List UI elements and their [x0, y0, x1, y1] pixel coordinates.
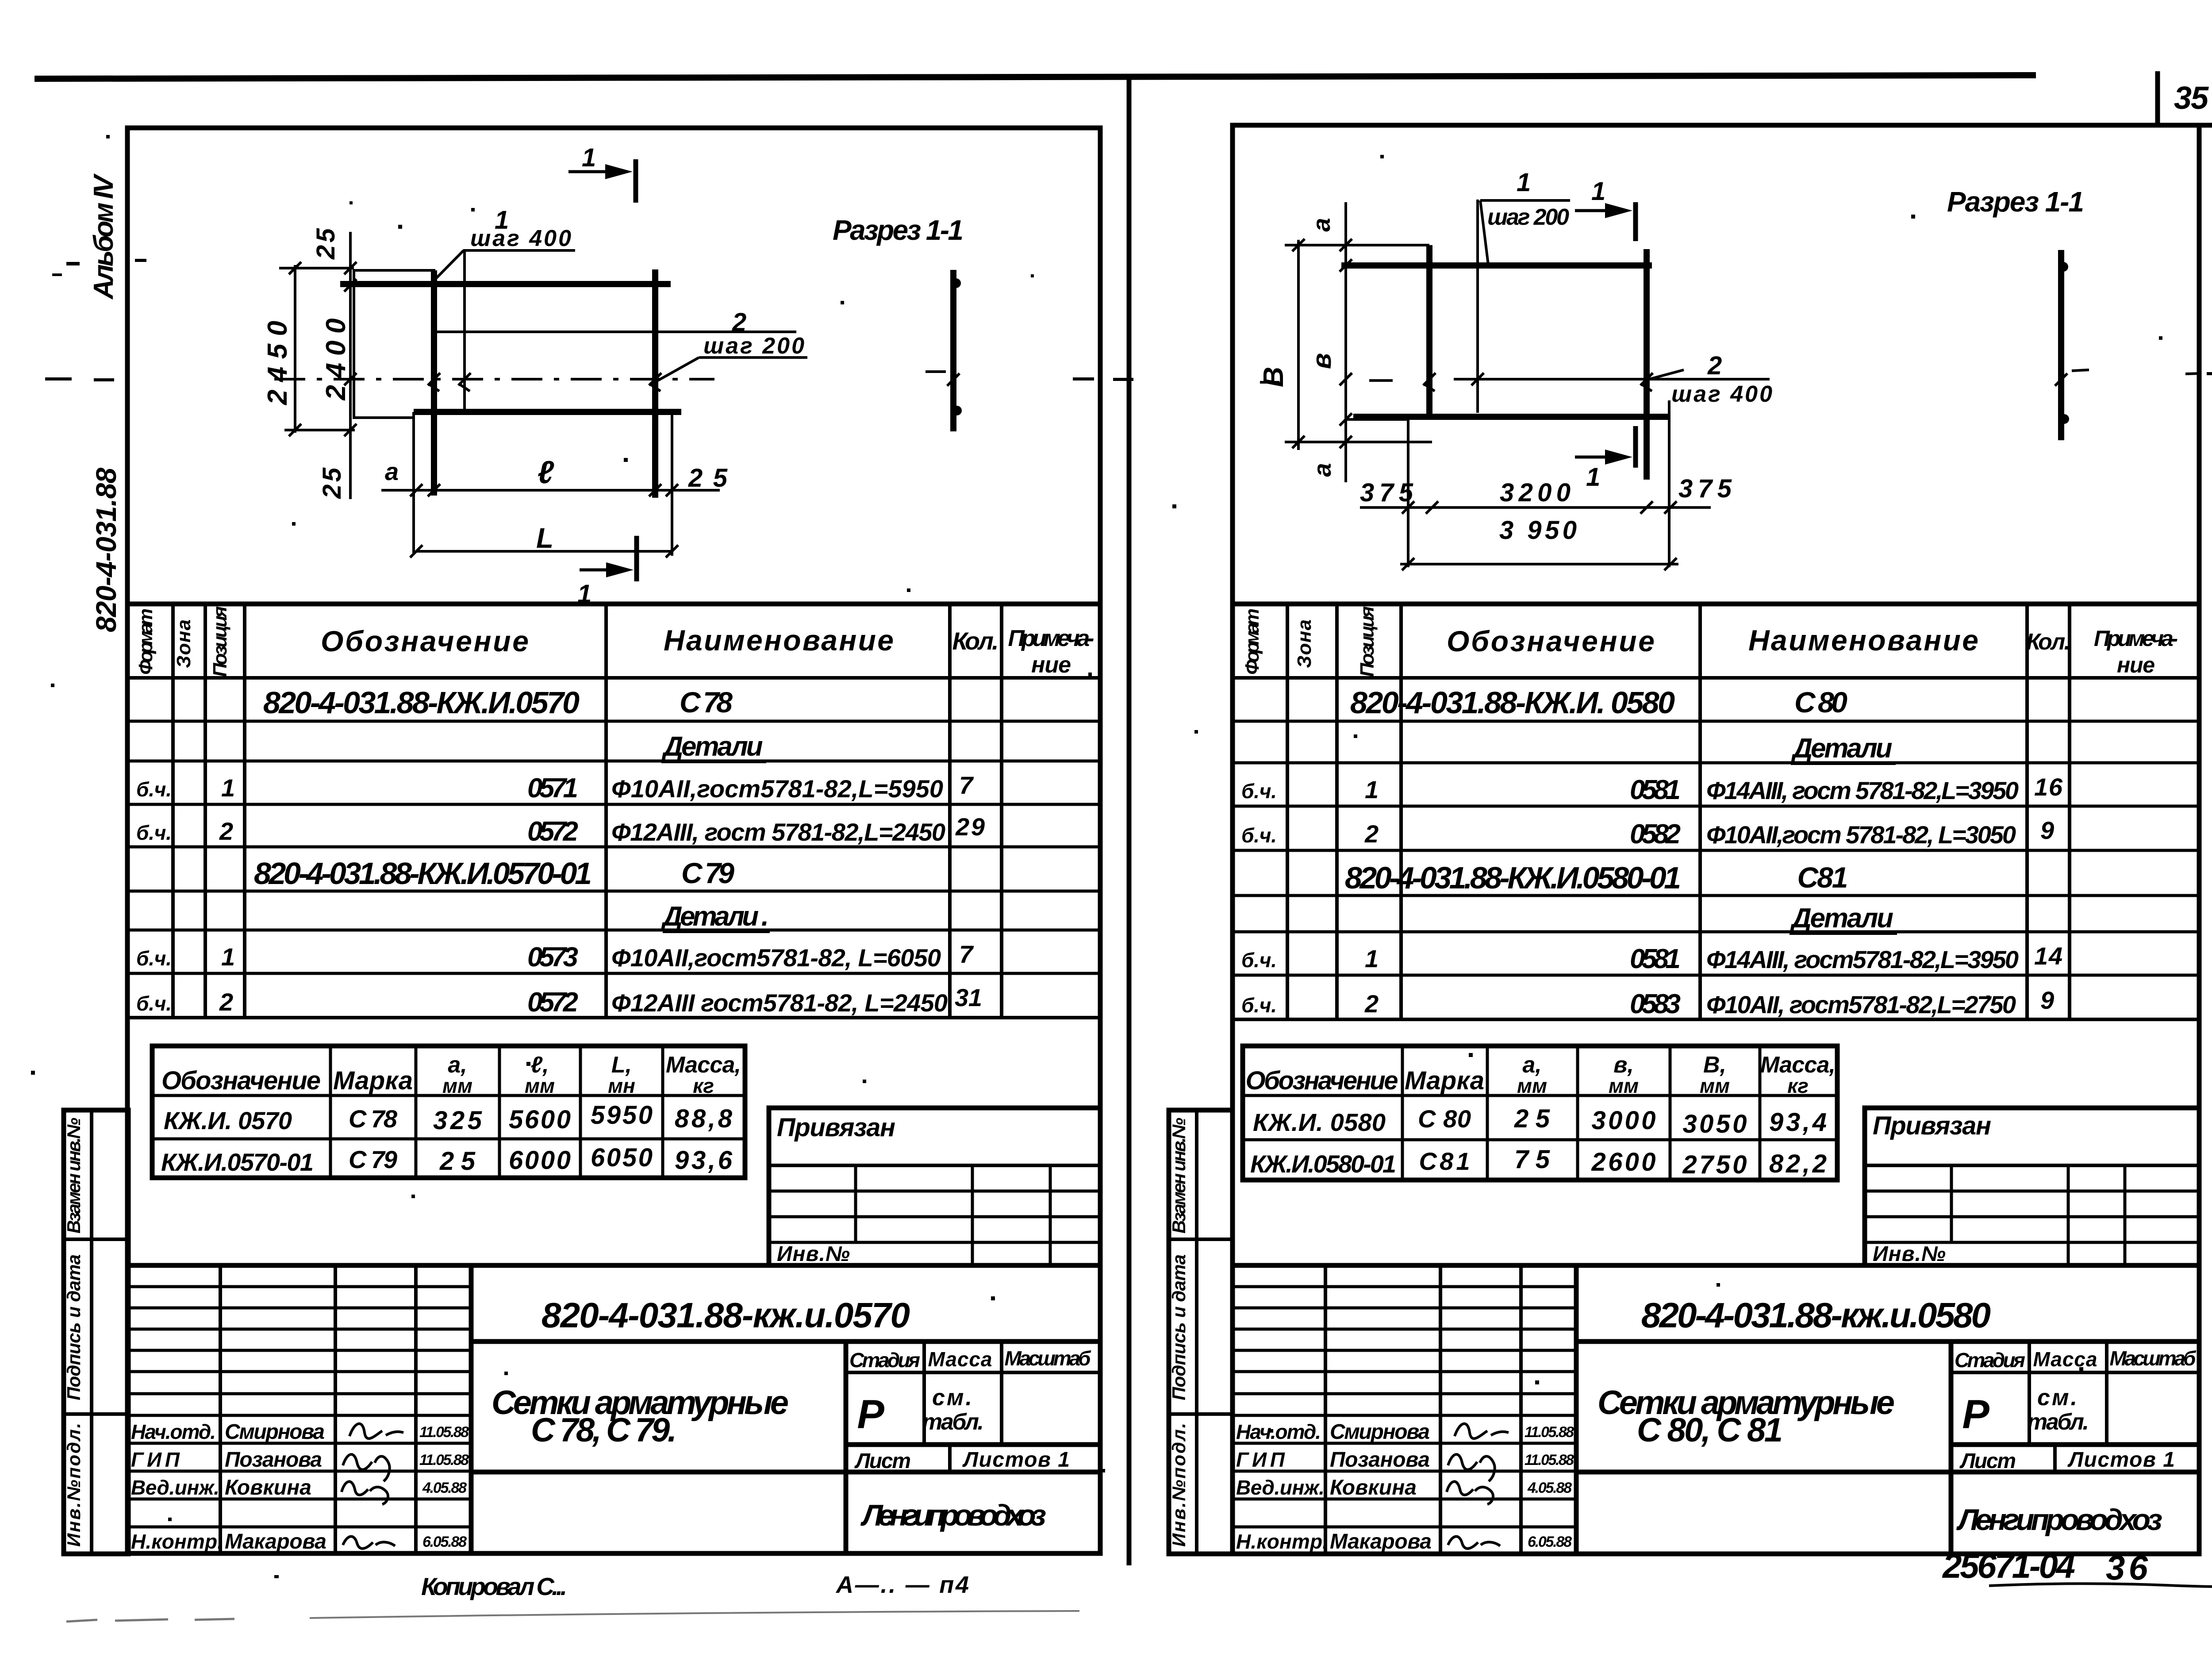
svg-text:б.ч.: б.ч. — [1241, 994, 1277, 1017]
right privyazan column lines — [1950, 1165, 1953, 1242]
left spec table column lines — [171, 604, 175, 1018]
svg-text:0581: 0581 — [1630, 944, 1681, 974]
svg-text:Лист: Лист — [1959, 1449, 2016, 1473]
svg-text:4.05.88: 4.05.88 — [1527, 1480, 1572, 1496]
left narrow column divider — [90, 1110, 93, 1554]
svg-text:Лист: Лист — [854, 1449, 911, 1473]
right section bar tick — [2055, 373, 2067, 386]
right narrow column box — [1169, 1110, 1233, 1554]
svg-text:11.05.88: 11.05.88 — [1525, 1452, 1574, 1468]
svg-text:Макарова: Макарова — [225, 1530, 326, 1553]
svg-text:2: 2 — [1364, 820, 1379, 848]
svg-text:Макарова: Макарова — [1330, 1530, 1432, 1553]
svg-text:шаг 400: шаг 400 — [1671, 381, 1772, 407]
right param table row line — [1243, 1138, 1837, 1142]
svg-text:Ковкина: Ковкина — [1330, 1476, 1417, 1499]
svg-text:Наименование: Наименование — [1748, 624, 1978, 657]
sheet number cell divider — [2155, 71, 2160, 125]
svg-text:ГИП: ГИП — [1236, 1448, 1285, 1471]
svg-text:Ф10АII,гост 5781-82, L=3050: Ф10АII,гост 5781-82, L=3050 — [1706, 821, 2016, 849]
svg-text:35: 35 — [2174, 81, 2209, 116]
bottom faint copy line left — [66, 1619, 234, 1622]
svg-text:2: 2 — [219, 817, 233, 845]
right dim line B outer — [1297, 240, 1300, 450]
svg-text:1: 1 — [1365, 945, 1379, 972]
left mesh thin rect — [354, 270, 435, 418]
left sheet frame — [127, 128, 1100, 1553]
svg-text:0572: 0572 — [527, 987, 578, 1018]
svg-text:Наименование: Наименование — [664, 624, 894, 657]
svg-text:Ленгипроводхоз: Ленгипроводхоз — [860, 1499, 1046, 1532]
svg-text:1: 1 — [1591, 177, 1605, 206]
svg-text:Масштаб: Масштаб — [1005, 1347, 1092, 1370]
svg-text:9: 9 — [2040, 816, 2054, 844]
left mesh left bar — [431, 270, 437, 496]
right mesh bottom bar — [1353, 414, 1671, 420]
right leader 2 diagonal — [1647, 370, 1684, 380]
svg-text:88,8: 88,8 — [675, 1104, 733, 1133]
svg-text:a: a — [1308, 463, 1336, 477]
left narrow column row lines — [64, 1238, 128, 1241]
bottom right underline — [1989, 1583, 2212, 1587]
left spec row2 underline — [661, 761, 766, 763]
svg-text:С 78, С 79.: С 78, С 79. — [531, 1411, 677, 1449]
svg-text:Ф10АII,гост5781-82, L=6050: Ф10АII,гост5781-82, L=6050 — [611, 944, 941, 972]
left mesh bottom bar — [414, 409, 681, 415]
svg-text:С 78: С 78 — [680, 686, 733, 719]
left dim line 2450 — [294, 265, 296, 433]
left spec table header bottom — [127, 676, 1100, 680]
svg-text:С81: С81 — [1419, 1147, 1470, 1175]
right lower rect right edge — [1668, 400, 1671, 567]
right privyazan row lines — [1865, 1190, 2199, 1193]
left dim line 2400 — [349, 232, 352, 499]
right section bar — [2058, 250, 2064, 440]
svg-text:93,6: 93,6 — [675, 1146, 733, 1175]
middle divider line between sheets — [1127, 78, 1132, 1565]
svg-text:31: 31 — [955, 984, 982, 1011]
left section arrow top — [634, 159, 638, 203]
svg-text:0572: 0572 — [527, 816, 578, 847]
svg-text:11.05.88: 11.05.88 — [1525, 1424, 1574, 1441]
svg-text:кг: кг — [1787, 1074, 1809, 1097]
svg-text:Ковкина: Ковкина — [225, 1476, 311, 1499]
svg-text:Обозначение: Обозначение — [321, 625, 529, 657]
right spec table header bottom — [1233, 676, 2199, 680]
svg-text:Ленгипроводхоз: Ленгипроводхоз — [1956, 1503, 2162, 1537]
svg-text:Обозначение: Обозначение — [1447, 625, 1655, 657]
right section arrow top — [1633, 202, 1638, 241]
svg-text:a: a — [385, 457, 399, 485]
svg-text:1: 1 — [1586, 463, 1600, 492]
left narrow column box — [64, 1110, 128, 1554]
right title block signature rows — [1233, 1442, 1576, 1445]
svg-text:мм: мм — [1609, 1074, 1639, 1097]
svg-text:7: 7 — [959, 771, 974, 799]
svg-text:0581: 0581 — [1630, 775, 1681, 805]
left signature squiggle4 — [343, 1537, 395, 1549]
svg-text:шаг 200: шаг 200 — [703, 333, 804, 359]
svg-text:1: 1 — [577, 580, 591, 608]
svg-text:L: L — [536, 522, 553, 554]
svg-text:мн: мн — [608, 1074, 635, 1097]
svg-text:Копировал С...: Копировал С... — [421, 1572, 567, 1600]
svg-text:Ф12АIII, гост 5781-82,L=2450: Ф12АIII, гост 5781-82,L=2450 — [611, 818, 945, 846]
left axis dashed line — [274, 378, 714, 381]
left section bar axis dashes — [926, 370, 946, 373]
svg-text:Формат: Формат — [1241, 608, 1263, 675]
left e dim line — [381, 489, 720, 492]
left axis cross marks — [428, 373, 661, 391]
right spec row6 underline — [1790, 932, 1897, 935]
svg-text:2: 2 — [219, 988, 233, 1016]
left dim extension top — [279, 267, 354, 269]
svg-text:Нач.отд.: Нач.отд. — [131, 1420, 216, 1443]
left signature squiggle1 — [349, 1424, 403, 1439]
svg-text:11.05.88: 11.05.88 — [419, 1452, 469, 1468]
left param table row line — [152, 1138, 745, 1141]
svg-text:820-4-031.88-кж.и.0570: 820-4-031.88-кж.и.0570 — [541, 1295, 910, 1335]
right lower rect left edge — [1407, 417, 1409, 567]
right spec table row lines — [1233, 720, 2199, 723]
right param table header line — [1243, 1094, 1837, 1097]
right param table box — [1243, 1046, 1837, 1180]
left mesh right bar — [652, 269, 658, 498]
right title block thin rows — [1233, 1285, 1576, 1288]
svg-text:Разрез 1-1: Разрез 1-1 — [1947, 186, 2084, 218]
svg-text:ℓ: ℓ — [538, 455, 554, 490]
svg-text:С81: С81 — [1797, 861, 1848, 894]
svg-text:Стадия: Стадия — [849, 1349, 920, 1372]
left privyazan row lines — [769, 1190, 1100, 1193]
svg-text:3 950: 3 950 — [1499, 516, 1577, 545]
left section bar — [950, 270, 956, 431]
svg-text:820-4-031.88-КЖ.И.0570-01: 820-4-031.88-КЖ.И.0570-01 — [254, 856, 592, 891]
svg-text:табл.: табл. — [922, 1409, 984, 1435]
left section bar tick — [947, 373, 960, 386]
svg-text:Инв.№: Инв.№ — [777, 1242, 850, 1266]
svg-text:Детали: Детали — [1791, 733, 1893, 764]
right mesh wire 1 vertical — [1476, 200, 1479, 413]
left section bar dots — [951, 278, 961, 288]
svg-text:Ф14АIII, гост5781-82,L=3950: Ф14АIII, гост5781-82,L=3950 — [1706, 946, 2019, 973]
svg-text:6.05.88: 6.05.88 — [1528, 1534, 1572, 1550]
svg-text:14: 14 — [2034, 942, 2062, 970]
page top border line — [35, 75, 2036, 79]
svg-text:16: 16 — [2034, 773, 2063, 801]
svg-text:0573: 0573 — [527, 942, 578, 972]
right narrow column row lines — [1169, 1238, 1233, 1241]
svg-text:А—.. — п4: А—.. — п4 — [835, 1572, 969, 1598]
svg-text:Разрез 1-1: Разрез 1-1 — [833, 214, 964, 246]
left privyazan header bottom — [769, 1164, 1100, 1167]
svg-text:0582: 0582 — [1630, 819, 1681, 849]
svg-text:Взамен инв.№: Взамен инв.№ — [1168, 1118, 1189, 1234]
svg-text:Привязан: Привязан — [777, 1113, 895, 1142]
svg-text:КЖ.И.0570-01: КЖ.И.0570-01 — [161, 1148, 314, 1176]
svg-text:375: 375 — [1360, 478, 1413, 507]
svg-text:Н.контр.: Н.контр. — [1236, 1530, 1328, 1553]
right narrow column divider — [1195, 1110, 1198, 1554]
svg-text:мм: мм — [442, 1074, 472, 1097]
left lower rect left edge — [412, 412, 415, 553]
right mesh top bar — [1341, 262, 1652, 269]
left privyazan box — [769, 1108, 1100, 1265]
svg-text:б.ч.: б.ч. — [1241, 824, 1277, 847]
left privyazan column lines — [854, 1165, 857, 1242]
left title block signature rows — [127, 1442, 471, 1445]
svg-text:820-4-031.88-КЖ.И.0580-01: 820-4-031.88-КЖ.И.0580-01 — [1345, 861, 1681, 895]
left spec row6 underline — [663, 930, 770, 933]
svg-text:6.05.88: 6.05.88 — [422, 1534, 467, 1550]
svg-text:Формат: Формат — [135, 608, 157, 675]
svg-text:2: 2 — [1364, 990, 1379, 1018]
svg-text:Марка: Марка — [1405, 1066, 1484, 1095]
left section arrow bottom — [634, 536, 639, 581]
right spec row2 underline — [1791, 762, 1896, 765]
right dim line в inner — [1344, 202, 1347, 482]
right section arrow bottom — [1633, 426, 1638, 468]
svg-text:1: 1 — [221, 774, 235, 802]
svg-text:мм: мм — [1517, 1074, 1547, 1097]
svg-text:см.: см. — [932, 1385, 972, 1411]
svg-text:Подпись и дата: Подпись и дата — [63, 1254, 84, 1400]
svg-text:4.05.88: 4.05.88 — [422, 1480, 467, 1496]
svg-text:Детали .: Детали . — [661, 901, 769, 932]
svg-text:Вед.инж.: Вед.инж. — [1236, 1476, 1325, 1499]
right signature squiggle1 — [1455, 1424, 1509, 1439]
left mesh wire 1 vertical — [463, 249, 466, 412]
svg-text:б.ч.: б.ч. — [1241, 949, 1277, 972]
svg-text:б.ч.: б.ч. — [136, 947, 172, 970]
svg-text:мм: мм — [1700, 1074, 1730, 1097]
svg-text:Ф12АIII гост5781-82, L=2450: Ф12АIII гост5781-82, L=2450 — [611, 989, 948, 1017]
right title name box lines — [1576, 1339, 2199, 1344]
svg-text:Позанова: Позанова — [225, 1448, 322, 1472]
svg-text:В: В — [1257, 367, 1289, 387]
svg-text:11.05.88: 11.05.88 — [419, 1424, 469, 1441]
svg-text:С 79: С 79 — [681, 857, 734, 889]
right signature squiggle3 — [1447, 1482, 1493, 1504]
right spec table column lines — [1286, 604, 1289, 1019]
right param table column lines — [1401, 1046, 1404, 1180]
svg-text:КЖ.И. 0580: КЖ.И. 0580 — [1253, 1108, 1386, 1136]
svg-text:Кол.: Кол. — [2026, 629, 2070, 655]
right axis line solid part — [1454, 378, 1770, 381]
svg-text:Ф14АIII, гост 5781-82,L=3950: Ф14АIII, гост 5781-82,L=3950 — [1706, 776, 2019, 804]
right axis cross marks — [1340, 373, 1653, 391]
right mesh left bar — [1426, 245, 1432, 419]
svg-text:Р: Р — [857, 1392, 884, 1437]
svg-text:б.ч.: б.ч. — [136, 992, 172, 1015]
svg-text:в: в — [1307, 353, 1336, 369]
svg-text:Масса: Масса — [928, 1348, 992, 1371]
svg-text:Кол.: Кол. — [952, 627, 999, 655]
svg-text:7: 7 — [959, 940, 974, 968]
left mesh wire 2 horizontal — [437, 331, 796, 333]
right section bar dots — [2058, 262, 2068, 272]
svg-text:КЖ.И. 0570: КЖ.И. 0570 — [164, 1107, 292, 1134]
svg-text:Ф10АII, гост5781-82,L=2750: Ф10АII, гост5781-82,L=2750 — [1706, 991, 2016, 1019]
svg-text:С 80, С 81: С 80, С 81 — [1637, 1411, 1783, 1449]
svg-text:1: 1 — [1517, 168, 1531, 197]
svg-text:см.: см. — [2037, 1385, 2077, 1411]
right mesh right bar — [1644, 249, 1650, 480]
svg-text:1: 1 — [221, 943, 235, 971]
svg-text:Смирнова: Смирнова — [1330, 1420, 1430, 1444]
svg-text:Зона: Зона — [1294, 619, 1315, 668]
right sheet top frame extension to page edge — [2199, 123, 2212, 128]
svg-text:табл.: табл. — [2027, 1409, 2089, 1435]
svg-text:Стадия: Стадия — [1955, 1349, 2025, 1372]
svg-text:С 78: С 78 — [349, 1105, 398, 1133]
right dim extension bottom — [1285, 441, 1432, 443]
svg-text:93,4: 93,4 — [1769, 1108, 1827, 1137]
right sheet frame — [1233, 125, 2199, 1554]
svg-text:375: 375 — [1678, 474, 1732, 503]
right 375-3200-375 dim line — [1360, 506, 1711, 509]
svg-text:Вед.инж.: Вед.инж. — [131, 1476, 219, 1499]
svg-text:82,2: 82,2 — [1769, 1149, 1827, 1178]
left mesh top bar — [340, 281, 671, 287]
svg-text:Позанова: Позанова — [1330, 1448, 1430, 1472]
svg-text:ние: ние — [2117, 653, 2155, 677]
right title block signature column lines — [1324, 1265, 1327, 1554]
svg-text:Подпись и дата: Подпись и дата — [1168, 1254, 1189, 1400]
svg-text:Позиция: Позиция — [209, 606, 231, 677]
bottom faint long line — [310, 1611, 1079, 1618]
svg-text:820-4-031.88-КЖ.И. 0580: 820-4-031.88-КЖ.И. 0580 — [1350, 685, 1675, 720]
svg-text:Детали: Детали — [1790, 903, 1893, 934]
svg-text:шаг 400: шаг 400 — [470, 226, 571, 251]
left signature squiggle2 — [343, 1454, 390, 1481]
svg-text:кг: кг — [693, 1074, 714, 1097]
right privyazan box — [1865, 1108, 2199, 1265]
right 3950 dim line — [1400, 563, 1678, 565]
svg-text:325: 325 — [433, 1106, 482, 1135]
svg-text:б.ч.: б.ч. — [136, 778, 172, 801]
svg-text:Ф10АII,гост5781-82,L=5950: Ф10АII,гост5781-82,L=5950 — [611, 775, 943, 803]
svg-text:Примеча-: Примеча- — [2094, 626, 2178, 651]
left title block thin rows — [127, 1285, 471, 1288]
left spec table row lines — [127, 720, 1100, 723]
svg-text:820-4-031.88-кж.и.0580: 820-4-031.88-кж.и.0580 — [1641, 1295, 1991, 1335]
left L dim line — [416, 550, 672, 553]
svg-text:ГИП: ГИП — [131, 1448, 180, 1471]
svg-text:1: 1 — [582, 143, 596, 172]
svg-text:Марка: Марка — [333, 1066, 413, 1095]
svg-text:шаг 200: шаг 200 — [1487, 204, 1569, 230]
right axis dashes — [1260, 370, 2200, 382]
left param table box — [152, 1046, 745, 1178]
svg-text:Позиция: Позиция — [1356, 606, 1378, 677]
svg-text:мм: мм — [525, 1074, 555, 1097]
svg-text:Детали: Детали — [661, 731, 763, 762]
svg-text:Р: Р — [1962, 1392, 1989, 1437]
left title block top line — [127, 1263, 1100, 1268]
svg-text:Нач.отд.: Нач.отд. — [1236, 1420, 1321, 1443]
right spec table top line — [1233, 602, 2199, 607]
svg-text:0571: 0571 — [527, 773, 578, 803]
left param table column lines — [329, 1046, 332, 1178]
svg-text:9: 9 — [2040, 986, 2054, 1014]
svg-text:a: a — [1307, 218, 1335, 231]
left dim extension bottom — [284, 429, 355, 431]
svg-text:820-4-031.88: 820-4-031.88 — [90, 468, 122, 632]
svg-text:820-4-031.88-КЖ.И.0570: 820-4-031.88-КЖ.И.0570 — [263, 685, 580, 720]
left title name box lines — [471, 1339, 1100, 1344]
svg-text:2: 2 — [1707, 351, 1722, 380]
right privyazan header bottom — [1865, 1164, 2199, 1167]
svg-text:ние: ние — [1031, 652, 1071, 678]
svg-text:Альбом IV: Альбом IV — [88, 173, 119, 300]
svg-text:0583: 0583 — [1630, 989, 1681, 1019]
svg-text:Взамен инв.№: Взамен инв.№ — [63, 1118, 84, 1234]
left title block signature column lines — [219, 1265, 222, 1554]
svg-text:Зона: Зона — [173, 619, 195, 668]
left lower rect right edge — [671, 412, 673, 556]
svg-text:б.ч.: б.ч. — [136, 821, 172, 844]
right signature squiggle4 — [1448, 1537, 1500, 1549]
svg-text:Привязан: Привязан — [1873, 1111, 1991, 1140]
svg-text:С 79: С 79 — [349, 1145, 397, 1173]
svg-text:1: 1 — [1365, 776, 1379, 803]
right signature squiggle2 — [1448, 1454, 1495, 1481]
svg-text:Обозначение: Обозначение — [1246, 1066, 1398, 1095]
svg-text:С 80: С 80 — [1418, 1105, 1471, 1133]
left spec table top line — [127, 602, 1100, 607]
left param table header line — [152, 1094, 745, 1097]
right title block top line — [1233, 1263, 2199, 1268]
svg-text:Примеча-: Примеча- — [1008, 626, 1094, 651]
svg-text:КЖ.И.0580-01: КЖ.И.0580-01 — [1250, 1150, 1396, 1178]
svg-text:б.ч.: б.ч. — [1241, 780, 1277, 803]
svg-text:2: 2 — [732, 308, 746, 337]
svg-text:С 80: С 80 — [1794, 686, 1847, 719]
svg-text:Обозначение: Обозначение — [161, 1066, 321, 1095]
svg-text:Инв.№: Инв.№ — [1873, 1242, 1946, 1266]
svg-text:Смирнова: Смирнова — [225, 1420, 325, 1444]
svg-text:Масса: Масса — [2033, 1348, 2097, 1371]
left signature squiggle3 — [342, 1482, 388, 1504]
right dim extension top — [1285, 244, 1429, 246]
svg-text:Масштаб: Масштаб — [2110, 1347, 2197, 1370]
right mesh thin rect bottom — [1346, 418, 1408, 421]
svg-text:Н.контр.: Н.контр. — [131, 1530, 223, 1553]
